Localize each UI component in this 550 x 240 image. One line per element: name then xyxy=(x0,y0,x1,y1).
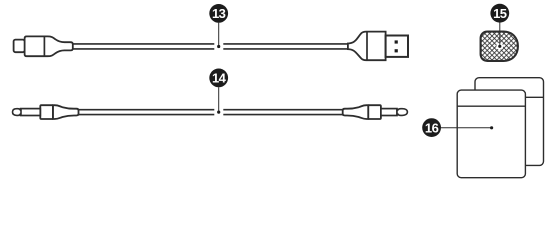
cable 14 wire left segment xyxy=(79,109,215,111)
usb-a divider line xyxy=(366,32,368,61)
usb-a housing and boot outline xyxy=(348,32,386,61)
leader line 14 xyxy=(218,87,220,110)
front card divider xyxy=(457,105,525,107)
usb-a metal plug xyxy=(386,36,408,57)
svg-text:16: 16 xyxy=(425,120,439,135)
svg-text:15: 15 xyxy=(493,6,507,21)
aux left body xyxy=(40,105,53,119)
aux right tip xyxy=(397,109,407,116)
aux left boot taper xyxy=(53,105,79,119)
front card xyxy=(457,90,525,178)
svg-text:14: 14 xyxy=(212,71,227,86)
cable 13 wire right segment xyxy=(223,43,350,45)
aux left shaft xyxy=(21,109,41,116)
leader dot 14 xyxy=(217,111,220,114)
leader dot 16 xyxy=(490,126,493,129)
badge 15 xyxy=(490,4,509,23)
back card xyxy=(475,78,544,166)
leader dot 15 xyxy=(498,45,501,48)
aux right boot taper xyxy=(343,105,369,119)
leader line 13 xyxy=(218,23,220,45)
badge 13 xyxy=(209,4,228,23)
svg-text:13: 13 xyxy=(212,6,226,21)
aux right shaft xyxy=(381,109,397,116)
usb-c housing and boot outline xyxy=(25,36,73,56)
badge 14 xyxy=(209,69,228,88)
leader line 15 xyxy=(499,22,501,44)
leader dot 13 xyxy=(217,45,220,48)
cable 14 wire right segment xyxy=(223,109,344,111)
usb-c plug tip xyxy=(14,40,25,53)
usb-a contact squares xyxy=(395,40,398,43)
badge 16 xyxy=(422,118,441,137)
leader line 16 xyxy=(441,127,490,129)
cable 13 wire left segment xyxy=(73,43,214,45)
mesh pouch body xyxy=(481,32,518,61)
halo for dot 15 xyxy=(496,43,503,50)
back card divider xyxy=(475,96,544,98)
usb-c divider line xyxy=(43,36,45,56)
aux right body xyxy=(368,105,381,119)
aux left tip xyxy=(13,109,22,116)
